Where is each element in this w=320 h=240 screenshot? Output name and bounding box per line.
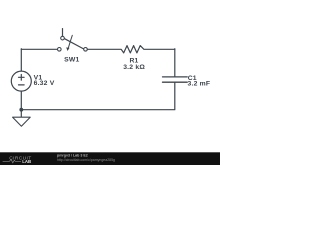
svg-text:http://circuitlab.com/c/pamyng: http://circuitlab.com/c/pamyngea285g [57, 158, 115, 162]
svg-text:LAB: LAB [22, 159, 31, 164]
svg-text:SW1: SW1 [64, 56, 79, 63]
svg-text:6.32 V: 6.32 V [34, 80, 55, 87]
svg-text:3.2 kΩ: 3.2 kΩ [123, 64, 145, 71]
svg-text:3.2 mF: 3.2 mF [188, 81, 211, 88]
svg-text:pmrgv3 / Lab 3 E2: pmrgv3 / Lab 3 E2 [57, 153, 88, 157]
